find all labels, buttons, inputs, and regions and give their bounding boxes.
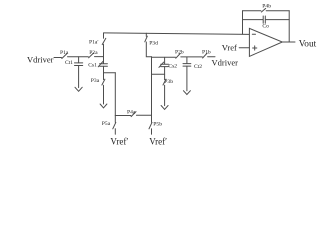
svg-text:Ct1: Ct1 [65, 60, 73, 66]
svg-text:Cs1: Cs1 [88, 63, 97, 69]
svg-text:P2b: P2b [175, 49, 184, 55]
svg-text:Vout: Vout [299, 39, 317, 49]
svg-text:Vref′: Vref′ [149, 136, 167, 146]
svg-text:Co: Co [262, 24, 269, 30]
svg-text:P1a: P1a [60, 50, 69, 56]
svg-text:P1b: P1b [202, 50, 211, 56]
svg-text:Vref: Vref [222, 42, 237, 52]
svg-text:Vref′: Vref′ [110, 136, 128, 146]
svg-text:P4a: P4a [127, 110, 136, 116]
svg-text:P3a: P3a [91, 78, 100, 84]
svg-text:P3b: P3b [164, 79, 173, 85]
svg-text:Ct2: Ct2 [194, 64, 202, 70]
svg-text:Vdriver: Vdriver [212, 58, 239, 68]
svg-text:Cs2: Cs2 [168, 63, 177, 69]
svg-text:P5a: P5a [102, 121, 111, 127]
svg-text:Vdriver: Vdriver [27, 55, 54, 65]
svg-text:P4b: P4b [262, 3, 271, 9]
svg-text:P2a: P2a [89, 50, 98, 56]
svg-text:P5b: P5b [153, 122, 162, 128]
svg-text:P3d: P3d [149, 40, 158, 46]
svg-text:P1a′: P1a′ [89, 40, 99, 46]
